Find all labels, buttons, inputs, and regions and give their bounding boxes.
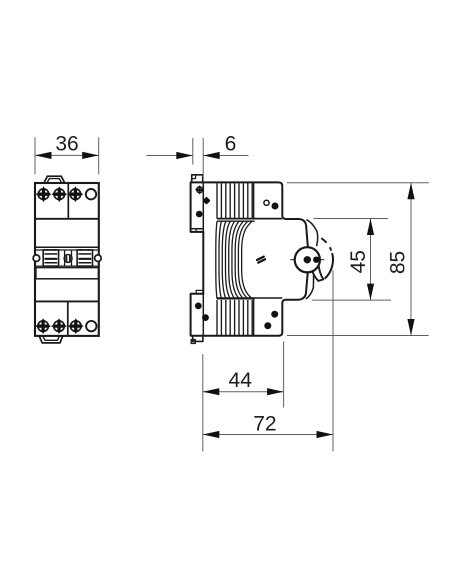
svg-text:36: 36 [55,132,78,155]
svg-text:85: 85 [386,251,409,274]
svg-text:45: 45 [347,250,370,273]
svg-text:72: 72 [253,413,276,436]
svg-text:6: 6 [225,133,237,156]
svg-text:44: 44 [229,369,253,392]
